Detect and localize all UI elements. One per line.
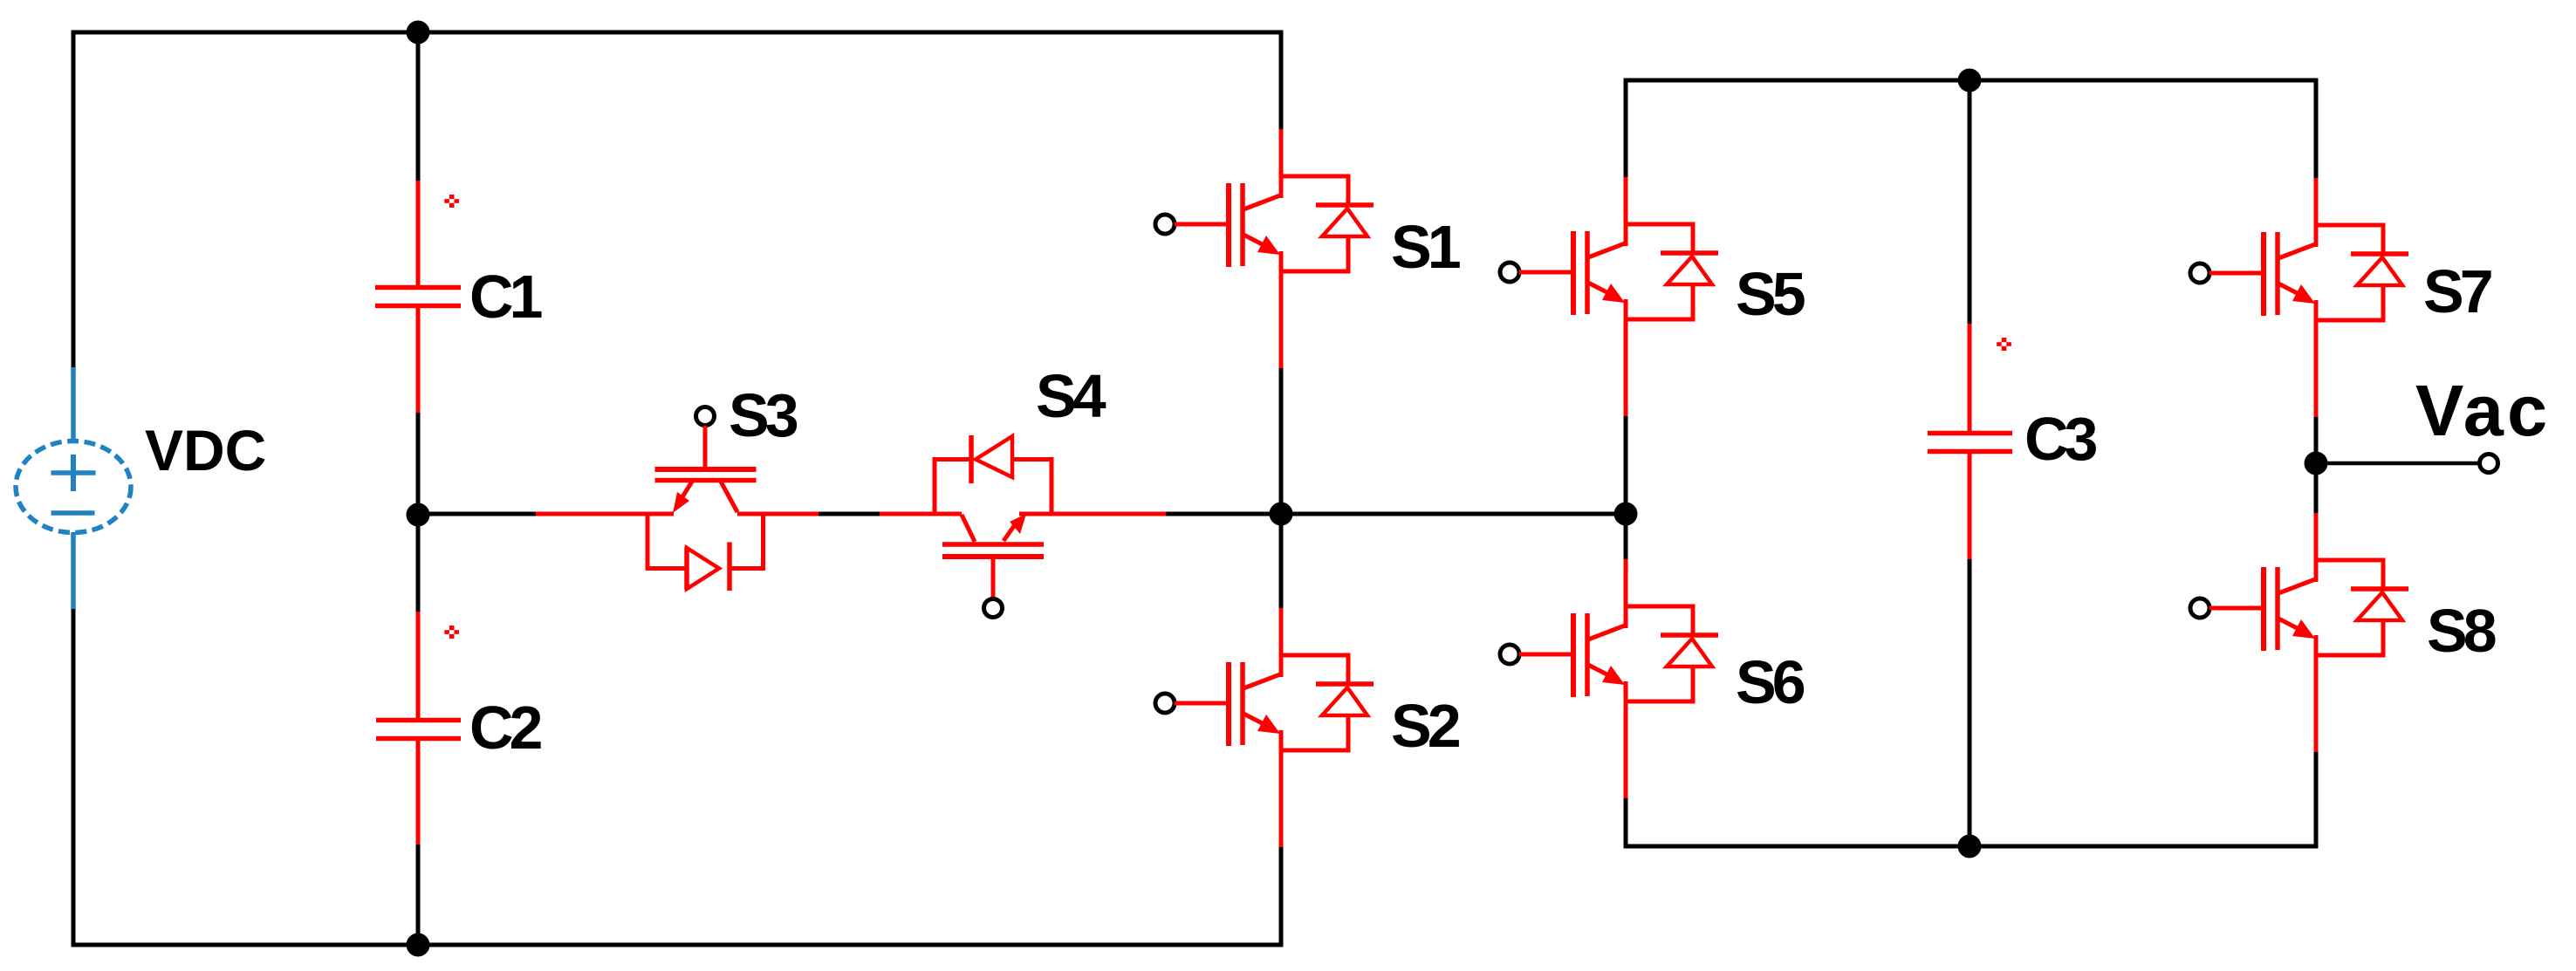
wire: bottom rail (left section) bbox=[72, 943, 1284, 947]
VDC minus sign bbox=[51, 510, 95, 516]
S3 emitter diagonal bbox=[679, 482, 692, 503]
wire: bottom rail (right section) bbox=[1624, 844, 2319, 849]
IGBT S8 bbox=[2190, 513, 2408, 752]
svg-text:C3: C3 bbox=[2024, 405, 2097, 473]
S4 gate circle bbox=[984, 599, 1003, 618]
wire: black S6 emitter to bottom rail bbox=[1624, 798, 1628, 849]
wire: black to S1/S2 midpoint bbox=[1166, 512, 1281, 516]
wire: red into S4 collector bbox=[880, 512, 962, 516]
node: bottom rail / C2 bbox=[407, 933, 430, 957]
wire: black S7 emitter to Vac node bbox=[2314, 417, 2319, 513]
wire: black from top rail to C1 bbox=[416, 32, 421, 181]
wire: C2 bottom lead (red) bbox=[416, 741, 421, 844]
wire: short black segment between S3 and S4 bbox=[819, 512, 880, 516]
svg-text:C1: C1 bbox=[469, 263, 542, 331]
svg-text:S5: S5 bbox=[1736, 260, 1805, 328]
wire: top rail bbox=[72, 31, 1284, 35]
wire: black S5 emitter to S5/S6 midpoint and on to S6 bbox=[1624, 416, 1628, 559]
S3 diode triangle bbox=[687, 548, 719, 589]
wire: Vac stub bbox=[2316, 462, 2480, 466]
S4 gate lead bbox=[991, 558, 996, 599]
IGBT S5 bbox=[1500, 177, 1718, 416]
wire: left wire lower black bbox=[72, 609, 76, 947]
S3 body bar bbox=[655, 478, 757, 483]
wire: black to bottom rail bbox=[416, 844, 421, 945]
S3 gate circle bbox=[696, 407, 715, 426]
S3 diode cathode bar bbox=[727, 543, 732, 591]
node: bottom right rail / C3 bbox=[1958, 835, 1982, 858]
wire: black S2 emitter to bottom rail bbox=[1279, 847, 1284, 947]
wire: black below mid junction bbox=[416, 515, 421, 612]
S4 diode loop top right bbox=[1012, 457, 1054, 462]
node: mid rail / S1-S2 midpoint bbox=[1270, 503, 1293, 526]
Vac terminal circle bbox=[2480, 455, 2498, 473]
wire: red from S3 collector to black segment bbox=[737, 512, 819, 516]
wire: C2 top lead (red) bbox=[416, 612, 421, 718]
S4 gate bar bbox=[942, 554, 1044, 559]
wire: left wire upper black bbox=[72, 31, 76, 368]
svg-text:S3: S3 bbox=[729, 381, 798, 449]
wire: black top rail corner down to S7 bbox=[2314, 79, 2319, 179]
S4 diode loop left stub bbox=[933, 457, 937, 516]
node: mid rail / C1-C2 bbox=[407, 503, 430, 527]
wire: black from top rail to C3 bbox=[1968, 80, 1972, 324]
S4 diode loop top left bbox=[933, 457, 972, 462]
svg-text:S8: S8 bbox=[2427, 597, 2496, 665]
wire: black from S1/S2 midpoint to S5/S6 midpoint bbox=[1281, 512, 1626, 516]
wire: VDC bottom lead (blue) bbox=[71, 532, 76, 609]
capacitor C1 bbox=[375, 285, 461, 291]
svg-text:S2: S2 bbox=[1391, 692, 1460, 760]
svg-text:S4: S4 bbox=[1036, 362, 1106, 430]
wire: C1 top lead (red) bbox=[416, 181, 421, 285]
svg-text:S1: S1 bbox=[1391, 213, 1460, 281]
wire: black to bottom rail bbox=[1968, 559, 1972, 846]
S3 diode loop right stub bbox=[761, 512, 765, 571]
node: top right rail / C3 bbox=[1958, 69, 1982, 92]
S3 diode loop bottom right bbox=[730, 566, 765, 571]
wire: red to S3 emitter bbox=[536, 512, 674, 516]
wire: black to mid junction bbox=[416, 413, 421, 515]
capacitor C3 bbox=[1928, 431, 2012, 436]
S4 collector diagonal bbox=[962, 515, 975, 542]
node: S7-S8 midpoint / Vac bbox=[2305, 452, 2328, 475]
C2 polarity mark bbox=[444, 626, 459, 639]
S4 diode loop right stub bbox=[1050, 457, 1054, 514]
svg-text:VDC: VDC bbox=[145, 418, 266, 482]
node: mid rail / S5-S6 midpoint bbox=[1614, 503, 1638, 526]
VDC plus sign bbox=[51, 470, 96, 475]
IGBT S1 bbox=[1155, 129, 1374, 368]
svg-text:S6: S6 bbox=[1736, 648, 1805, 716]
S4 body bar bbox=[942, 542, 1044, 547]
S4 emitter diagonal bbox=[1004, 523, 1016, 541]
capacitor C2 bbox=[376, 718, 461, 723]
node: top rail / C1 bbox=[407, 21, 430, 44]
S3 gate bar bbox=[655, 467, 757, 472]
S3 diode loop left stub bbox=[646, 512, 650, 571]
svg-text:C2: C2 bbox=[469, 694, 542, 762]
wire: C3 top lead (red) bbox=[1968, 324, 1972, 431]
S3 emitter arrow bbox=[673, 492, 689, 513]
S4 emitter arrow bbox=[1010, 514, 1026, 534]
svg-text:Vac: Vac bbox=[2415, 370, 2551, 451]
wire: red from S4 emitter to phase node bbox=[1019, 512, 1166, 516]
S4 diode triangle bbox=[976, 436, 1012, 477]
wire: black from mid junction bbox=[418, 512, 536, 516]
C1 polarity mark bbox=[444, 195, 459, 208]
wire: black midpoint down to S2 bbox=[1279, 514, 1284, 608]
S3 diode anode bar bbox=[684, 547, 689, 590]
wire: black S1 emitter to midpoint bbox=[1279, 368, 1284, 514]
S3 diode loop bottom left bbox=[646, 566, 688, 571]
S4 diode cathode bar bbox=[969, 435, 974, 483]
wire: black from top rail corner down to S1 bbox=[1279, 31, 1284, 130]
svg-text:S7: S7 bbox=[2423, 257, 2491, 325]
wire: C1 bottom lead (red) bbox=[416, 308, 421, 413]
wire: C3 bottom lead (red) bbox=[1968, 454, 1972, 559]
IGBT S7 bbox=[2190, 178, 2408, 417]
voltage source VDC (dashed ellipse) bbox=[16, 441, 131, 533]
S3 collector diagonal bbox=[721, 482, 737, 512]
wire: black top rail corner down to S5 bbox=[1624, 79, 1628, 178]
wire: VDC top lead (blue) bbox=[71, 367, 76, 441]
IGBT S6 bbox=[1500, 559, 1718, 798]
wire: black S8 emitter to bottom rail bbox=[2314, 752, 2319, 849]
wire: top rail (right section) bbox=[1624, 79, 2319, 83]
C3 polarity mark bbox=[1997, 338, 2011, 351]
IGBT S2 bbox=[1155, 608, 1374, 847]
S3 gate lead bbox=[703, 426, 708, 467]
